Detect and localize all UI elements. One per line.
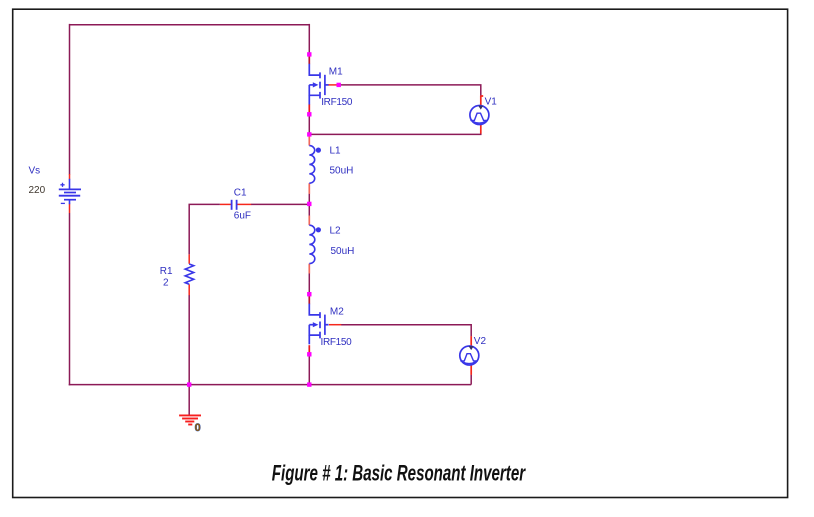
svg-text:C1: C1 [234,188,247,199]
pin Vs minus [69,204,71,213]
junction ground rail [187,382,191,386]
pin L2 top [308,216,310,226]
junction C1 node [307,202,311,206]
pin M2 source [308,345,310,353]
pin C1 right [238,203,252,205]
svg-text:V2: V2 [474,336,487,347]
pin R1 bottom [188,284,190,295]
svg-text:0: 0 [195,422,201,434]
source V1 [470,106,489,125]
svg-text:2: 2 [163,278,169,289]
wire C1 right to node [251,203,309,205]
capacitor C1 [232,200,237,210]
pin M1 source [308,104,310,113]
transistor M1 [309,64,328,105]
junction node A top [307,52,311,56]
junction V1 return / L1 [307,132,311,136]
junction M1 source [307,112,311,116]
inductor L1 [309,146,321,184]
wire V2 minus return [470,375,472,385]
svg-text:V1: V1 [485,96,498,107]
pin M2 gate [329,324,341,326]
pin V1 plus [481,96,483,106]
wire M2 source to rail [308,354,310,384]
pin M1 drain [308,56,310,64]
wire M1 source to L1 [308,114,310,135]
wire top rail [70,24,310,26]
pin V1 minus [480,124,482,133]
pin L1 bottom [308,183,310,194]
wire left drop to Vs [69,24,71,175]
svg-text:50uH: 50uH [330,166,354,177]
pin R1 top [188,254,190,263]
wire R1 to rail [188,295,190,385]
svg-text:R1: R1 [160,266,173,277]
pin Vs plus [69,174,71,179]
source V2 [460,346,479,365]
pin M2 drain [308,296,310,304]
pin C1 left [220,203,231,205]
wire M1 gate to V1 [338,85,481,96]
pin M1 gate [328,84,338,86]
svg-text:M1: M1 [329,67,343,78]
wire M1 drain [308,24,310,55]
svg-text:50uH: 50uH [331,246,355,257]
wire V1 minus return [309,133,481,134]
wire C1 left to R1 [189,204,220,254]
battery Vs [59,179,81,204]
junction M1 gate [337,83,341,87]
svg-text:220: 220 [29,185,46,196]
wire bottom rail [69,384,472,386]
junction M2 source [307,352,311,356]
pin L1 top [308,135,310,145]
svg-text:6uF: 6uF [234,211,251,222]
wire M2 gate to V2 [341,325,471,337]
wire L1 to L2 [308,194,310,216]
pin V2 minus [470,365,472,375]
resistor R1 [185,264,194,284]
inductor L2 [309,225,321,263]
svg-text:Figure # 1: Basic Resonant Inv: Figure # 1: Basic Resonant Inverter [272,460,526,485]
svg-text:IRF150: IRF150 [321,337,353,348]
pin L2 bottom [308,264,310,274]
junction M2 drain [307,292,311,296]
svg-text:L1: L1 [330,146,342,157]
wire ground stub [188,385,190,416]
junction rail main [307,382,311,386]
ground [179,415,201,424]
svg-text:IRF150: IRF150 [321,97,353,108]
svg-text:Vs: Vs [29,166,41,177]
wire L2 to M2 drain [308,273,310,296]
svg-text:L2: L2 [330,225,342,236]
pin V2 plus [470,336,472,346]
transistor M2 [309,304,328,345]
wire Vs bottom to rail [69,213,71,385]
svg-text:M2: M2 [330,307,344,318]
